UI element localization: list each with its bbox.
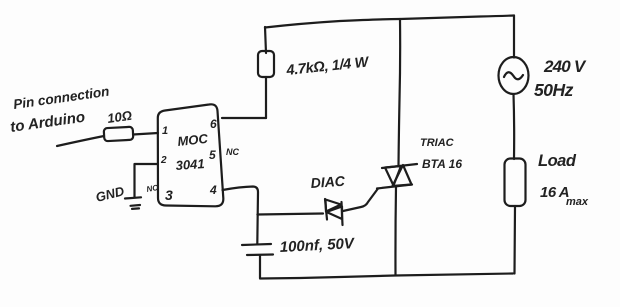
svg-text:16 A: 16 A xyxy=(540,184,569,201)
svg-text:Pin connection: Pin connection xyxy=(12,84,110,112)
svg-text:TRIAC: TRIAC xyxy=(420,137,455,149)
svg-text:50Hz: 50Hz xyxy=(534,80,574,100)
svg-text:GND: GND xyxy=(94,183,126,205)
svg-text:NC: NC xyxy=(226,147,239,157)
svg-text:4: 4 xyxy=(209,183,217,197)
svg-text:to Arduino: to Arduino xyxy=(9,109,86,136)
svg-text:100nf, 50V: 100nf, 50V xyxy=(279,235,356,256)
svg-text:max: max xyxy=(566,196,589,208)
svg-text:MOC: MOC xyxy=(177,131,209,149)
svg-text:3041: 3041 xyxy=(175,156,205,173)
svg-text:10Ω: 10Ω xyxy=(106,108,132,126)
svg-text:Load: Load xyxy=(538,152,577,170)
svg-text:240 V: 240 V xyxy=(543,57,587,76)
svg-text:1: 1 xyxy=(162,125,168,137)
svg-text:4.7kΩ, 1/4 W: 4.7kΩ, 1/4 W xyxy=(285,54,371,79)
svg-text:BTA 16: BTA 16 xyxy=(422,157,462,171)
svg-text:6: 6 xyxy=(210,117,217,131)
svg-text:2: 2 xyxy=(160,155,167,166)
svg-text:DIAC: DIAC xyxy=(310,173,346,191)
svg-text:5: 5 xyxy=(209,148,216,162)
svg-text:3: 3 xyxy=(165,187,173,203)
